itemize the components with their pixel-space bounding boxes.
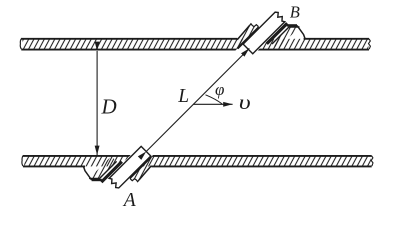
wall slot for transducer xyxy=(235,38,271,51)
boss collar top ledge xyxy=(287,24,297,26)
transducer A (ultrasonic probe) xyxy=(109,146,151,188)
svg-text:L: L xyxy=(177,86,189,107)
boss collar outer wall (hatched) xyxy=(272,27,300,49)
transducer B mounting boss xyxy=(235,23,305,51)
top pipe wall (hatched band) xyxy=(23,39,369,50)
boss collar wall (jagged break end) xyxy=(236,24,259,49)
boss collar inner wall (thick edge) xyxy=(101,162,122,183)
boss collar inner wall (thick edge) xyxy=(267,23,288,44)
acoustic path line L with arrowheads to A and B xyxy=(146,48,249,151)
boss collar outer wall (hatched) xyxy=(89,156,117,178)
boss collar wall (jagged break end) xyxy=(130,156,153,181)
boss collar chamfer to wall xyxy=(297,25,305,38)
label v xyxy=(239,92,251,114)
flow velocity arrow v xyxy=(193,103,232,105)
bottom wall right end cap (jagged) xyxy=(371,156,373,166)
transducer B (ultrasonic probe) xyxy=(243,12,285,54)
svg-text:B: B xyxy=(290,3,300,22)
svg-text:φ: φ xyxy=(215,80,224,99)
svg-text:υ: υ xyxy=(239,92,251,114)
wall slot for transducer xyxy=(118,155,154,168)
svg-text:D: D xyxy=(101,94,117,118)
top wall right end cap (jagged) xyxy=(369,39,371,49)
svg-text:A: A xyxy=(122,190,136,211)
transducer A mounting boss (rotated copy) xyxy=(84,155,154,183)
pipe diameter arrow D (double headed) xyxy=(96,51,98,155)
bottom wall left end cap xyxy=(22,155,24,166)
angle arc phi xyxy=(206,95,223,104)
top wall left end cap xyxy=(20,38,22,49)
bottom pipe wall (hatched band) xyxy=(24,156,371,167)
boss collar top ledge xyxy=(92,179,102,181)
boss collar chamfer to wall xyxy=(84,167,92,180)
